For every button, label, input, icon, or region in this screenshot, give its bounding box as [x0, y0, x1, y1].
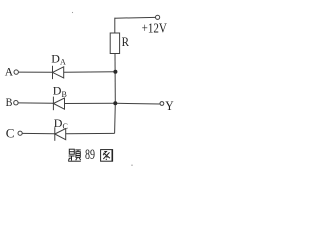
wire: riser from C row up to node [114, 103, 117, 133]
wire: corner down to resistor top [114, 18, 116, 33]
svg-text:+12V: +12V [142, 21, 167, 36]
svg-text:Y: Y [165, 98, 174, 113]
diode DC triangle [55, 129, 66, 140]
caption glyph 题 (hand drawn) [68, 149, 81, 161]
terminal Y circle [160, 102, 164, 106]
wire: input A row [18, 71, 52, 73]
caption glyph 图 (hand drawn) [101, 150, 113, 162]
terminal C circle [18, 131, 22, 135]
wire: DB anode to node [65, 102, 116, 104]
diode DC cathode bar [54, 127, 56, 141]
diode DA cathode bar [52, 66, 54, 79]
svg-text:89: 89 [85, 147, 95, 163]
svg-text:A: A [5, 67, 14, 79]
svg-text:C: C [6, 125, 15, 140]
diode DB triangle [53, 98, 64, 109]
junction node 1 (A row joins bus) [113, 70, 117, 74]
speck bottom right [131, 165, 132, 166]
resistor R body [110, 33, 119, 54]
wire: input C row [22, 132, 55, 134]
wire: input B row [18, 102, 53, 104]
speck top [72, 12, 73, 13]
terminal +12V circle [156, 15, 160, 19]
diode DB cathode bar [52, 97, 54, 111]
wire: DA anode to node [64, 71, 116, 74]
wire: DC anode to riser corner [66, 132, 115, 134]
wire: resistor bottom to node junction bus [114, 54, 116, 104]
terminal A circle [14, 70, 18, 74]
svg-text:DA: DA [51, 51, 66, 66]
diode DA triangle [53, 67, 64, 78]
junction node 2 (B row, C riser, Y out) [113, 101, 117, 105]
svg-text:R: R [122, 34, 130, 49]
wire: node to output Y [115, 102, 160, 105]
svg-text:B: B [6, 97, 13, 109]
terminal B circle [14, 101, 18, 105]
wire: +12V rail horizontal [115, 16, 156, 19]
svg-text:DC: DC [54, 116, 68, 131]
svg-text:DB: DB [53, 84, 67, 99]
